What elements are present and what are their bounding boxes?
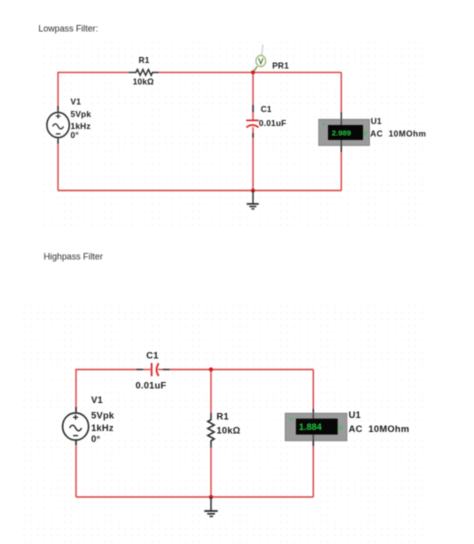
capacitor C1 (highpass, series) <box>136 363 169 376</box>
svg-text:C1: C1 <box>261 104 272 114</box>
voltmeter U1 (highpass indicator) <box>285 409 347 446</box>
svg-text:5Vpk: 5Vpk <box>71 109 92 119</box>
svg-text:+: + <box>322 122 326 128</box>
svg-text:Lowpass Filter:: Lowpass Filter: <box>38 23 98 33</box>
wire: lowpass top-left segment (V1 top to R1 left) <box>58 72 129 109</box>
svg-text:2.989: 2.989 <box>332 128 351 137</box>
wire: lowpass top-middle segment (R1 right to node to top-right corner) <box>159 71 342 73</box>
svg-text:U1: U1 <box>371 116 382 126</box>
resistor R1 (lowpass) <box>129 70 159 76</box>
source V1 (lowpass AC source) <box>47 106 69 144</box>
svg-text:V: V <box>338 425 343 432</box>
svg-text:0.01uF: 0.01uF <box>259 118 286 128</box>
ground (lowpass) <box>247 191 259 209</box>
svg-text:R1: R1 <box>139 55 150 65</box>
wire: highpass bottom wire <box>76 496 313 498</box>
wire: lowpass C1 branch upper (node down to C1) <box>252 72 254 120</box>
wire: highpass top segment (C1 right to node to corner) <box>170 369 314 371</box>
wire: highpass right branch upper (corner to meter top) <box>312 370 314 410</box>
svg-text:1kHz: 1kHz <box>91 423 114 433</box>
svg-text:U1: U1 <box>349 410 361 420</box>
wire: highpass R1 branch lower (R1 bottom to bottom wire) <box>210 448 212 498</box>
wire: lowpass bottom wire <box>58 190 341 192</box>
svg-text:AC 10MOhm: AC 10MOhm <box>370 128 426 138</box>
wire: highpass R1 branch upper (node to R1 top) <box>210 370 212 414</box>
svg-text:1.884: 1.884 <box>299 422 323 432</box>
wire: lowpass C1 branch lower (C1 to bottom wire) <box>252 127 254 191</box>
wire: highpass left-top segment (corner to C1 left) <box>76 370 136 411</box>
svg-text:0.01uF: 0.01uF <box>136 380 167 390</box>
probe PR1 (voltage probe) <box>253 45 265 72</box>
source V1 (highpass AC source) <box>63 407 89 445</box>
wire: highpass left branch lower (V1 bottom to bottom wire) <box>75 441 77 497</box>
node A (junction of R1/C1/probe, lowpass top) <box>251 70 255 74</box>
wire: lowpass right branch upper (corner down to meter) <box>340 72 342 112</box>
svg-text:V1: V1 <box>91 395 103 405</box>
node B (junction of C1 branch and bottom wire) <box>251 189 255 193</box>
ground (highpass) <box>204 497 217 516</box>
svg-text:C1: C1 <box>146 350 158 360</box>
svg-text:Highpass Filter: Highpass Filter <box>44 251 103 261</box>
resistor R1 (highpass, vertical) <box>208 413 214 448</box>
capacitor C1 (lowpass) <box>246 105 259 138</box>
svg-text:PR1: PR1 <box>272 61 289 71</box>
svg-text:V: V <box>363 131 368 138</box>
node D (junction of R1 branch and bottom wire, highpass) <box>209 495 213 499</box>
svg-text:10kΩ: 10kΩ <box>217 426 241 436</box>
svg-text:+: + <box>290 416 294 423</box>
wire: highpass meter branch lower (meter bottom to bottom wire) <box>312 441 314 497</box>
node C (junction of C1/R1 branch, highpass top) <box>209 367 213 371</box>
svg-text:AC 10MOhm: AC 10MOhm <box>349 424 410 434</box>
svg-text:V1: V1 <box>71 96 82 106</box>
svg-text:R1: R1 <box>217 411 229 421</box>
svg-text:0°: 0° <box>71 130 79 140</box>
voltmeter U1 (lowpass indicator) <box>319 112 370 152</box>
svg-text:10kΩ: 10kΩ <box>133 77 154 87</box>
wire: lowpass meter branch lower (meter bottom to bottom wire) <box>340 146 342 191</box>
svg-text:5Vpk: 5Vpk <box>91 410 115 420</box>
svg-text:0°: 0° <box>91 434 100 444</box>
wire: lowpass left branch lower (V1 bottom to bottom wire) <box>57 141 59 191</box>
